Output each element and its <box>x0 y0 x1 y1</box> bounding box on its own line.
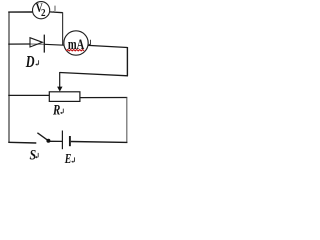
wire: right vertical upper segment <box>126 47 128 76</box>
svg-text:E: E <box>64 152 72 167</box>
svg-text:D: D <box>25 53 35 71</box>
red spellcheck squiggle under mA <box>66 50 84 51</box>
return mark after S <box>37 153 38 157</box>
wire: switch to battery <box>50 140 62 142</box>
wire: bottom left from bus to switch <box>8 141 36 144</box>
wire: voltmeter to top-right corner <box>50 11 63 14</box>
return mark after V2 on top wire <box>54 6 56 11</box>
wire: battery to bottom right corner (slopes down) <box>71 141 128 144</box>
voltmeter U1 circle <box>33 2 50 19</box>
wire: vertical drop from top wire to mA node <box>62 12 64 45</box>
switch hinge dot <box>46 139 50 143</box>
milliammeter U2 circle <box>64 31 88 55</box>
wire: milliammeter to right corner (slopes down) <box>88 45 127 47</box>
wire: R row right from box to right bus <box>80 97 127 99</box>
wire: gray wire through diode triangle <box>30 43 44 45</box>
wire: right vertical lower segment <box>126 98 128 143</box>
resistor R1 box <box>49 92 80 102</box>
battery short plate <box>69 136 71 146</box>
wire: rheostat wiper horizontal (slopes down) <box>60 73 128 76</box>
switch S1 blade <box>37 133 47 141</box>
svg-text:R: R <box>52 102 61 118</box>
wire: top from left corner to voltmeter <box>8 11 33 13</box>
wiper arrowhead <box>57 87 62 92</box>
return mark after mA on wire <box>90 40 91 45</box>
wire: left vertical bus <box>8 12 10 143</box>
svg-text:2: 2 <box>41 7 46 19</box>
wire: R row left from bus to box <box>8 94 49 96</box>
diode cathode bar <box>43 35 45 53</box>
diode D1 triangle <box>30 38 42 47</box>
return mark after R <box>62 109 63 113</box>
battery E1 long plate <box>61 131 63 150</box>
return mark after D <box>38 60 39 64</box>
return mark after E <box>74 157 75 161</box>
wire: diode row from left bus to diode <box>8 43 30 45</box>
svg-text:S: S <box>30 147 37 163</box>
wire: wiper vertical shaft <box>59 72 61 88</box>
wire: diode to milliammeter <box>44 43 64 46</box>
